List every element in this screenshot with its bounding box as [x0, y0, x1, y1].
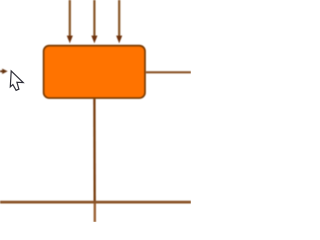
wire: incoming arrow shaft 3 (right) [118, 0, 120, 36]
wire: incoming arrow shaft 1 (left) [69, 0, 71, 36]
process block (orange rounded rectangle) [44, 46, 145, 98]
arrowhead of incoming arrow 1 [67, 36, 73, 44]
wire: vertical line below junction (lighter) [94, 201, 96, 222]
wire: incoming arrow shaft 2 (middle) [93, 0, 95, 36]
arrowhead of incoming arrow 2 [91, 36, 97, 44]
wire: output line to right edge [146, 71, 191, 73]
mouse cursor [10, 71, 23, 90]
wire: bottom horizontal line [0, 201, 191, 204]
small right-pointing arrow at left edge [0, 70, 3, 72]
arrowhead of incoming arrow 3 [116, 36, 122, 44]
wire: vertical line from block bottom [93, 99, 96, 201]
